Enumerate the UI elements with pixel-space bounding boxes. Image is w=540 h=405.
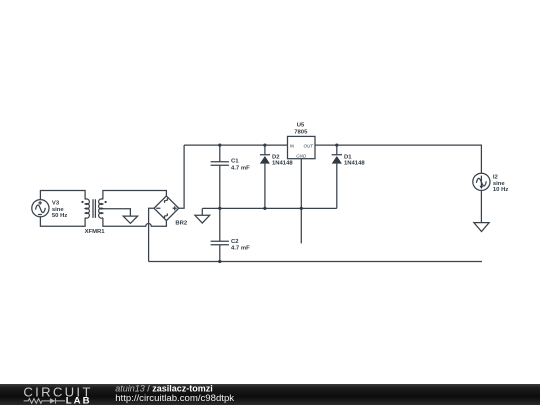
wire mid rail: [202, 207, 336, 209]
bridge rectifier BR2: [154, 196, 179, 221]
svg-text:1N4148: 1N4148: [272, 161, 293, 167]
wire bottom rail: [149, 261, 482, 263]
label D1 1N4148: [344, 155, 365, 167]
svg-text:4.7 mF: 4.7 mF: [231, 246, 250, 252]
svg-text:50 Hz: 50 Hz: [52, 213, 67, 219]
diode D2: [260, 145, 270, 208]
svg-text:sine: sine: [52, 207, 65, 213]
node mid D2: [263, 207, 266, 210]
op-amp U5 7805 regulator: [288, 136, 316, 158]
svg-text:OUT: OUT: [304, 143, 315, 148]
svg-text:10 Hz: 10 Hz: [493, 187, 508, 193]
wire secondary top: [103, 191, 166, 200]
node top C1: [218, 144, 221, 147]
svg-text:V3: V3: [52, 200, 60, 206]
capacitor C2: [211, 208, 229, 261]
wire V3 loop bottom: [40, 217, 85, 227]
svg-text:I2: I2: [493, 174, 499, 180]
node top D2: [263, 144, 266, 147]
voltage source V3: [32, 200, 49, 217]
svg-text:1N4148: 1N4148: [344, 161, 365, 167]
node mid GND pin: [300, 207, 303, 210]
wire GND pin: [300, 159, 302, 244]
node bottom C2: [218, 260, 221, 263]
wire top rail right: [315, 145, 481, 173]
wire secondary bottom with hop: [103, 218, 166, 227]
label C1 4.7 mF: [231, 158, 250, 171]
svg-text:sine: sine: [493, 181, 506, 187]
svg-text:IN: IN: [290, 143, 295, 148]
footer title: [115, 384, 234, 404]
svg-text:GND: GND: [296, 154, 307, 159]
svg-text:XFMR1: XFMR1: [85, 229, 106, 235]
svg-text:C2: C2: [231, 239, 239, 245]
svg-text:BR2: BR2: [175, 220, 188, 226]
svg-text:U5: U5: [297, 123, 305, 129]
transformer XFMR1: [81, 199, 106, 218]
node top D1: [335, 144, 338, 147]
wire center tap: [103, 209, 130, 216]
wire top rail left: [184, 144, 287, 146]
svg-text:C1: C1: [231, 158, 239, 164]
label D2 1N4148: [272, 155, 293, 167]
ground (mid rail): [195, 208, 210, 223]
label I2 sine 10 Hz: [493, 174, 508, 193]
svg-text:http://circuitlab.com/c98dtpk: http://circuitlab.com/c98dtpk: [115, 393, 234, 404]
wire V3 loop top: [40, 191, 85, 200]
label U5 7805: [294, 123, 308, 136]
svg-text:LAB: LAB: [66, 395, 92, 405]
ground (transformer tap): [123, 216, 137, 223]
svg-text:4.7 mF: 4.7 mF: [231, 165, 250, 171]
CircuitLab logo: [23, 384, 92, 405]
label C2 4.7 mF: [231, 239, 250, 251]
node mid C branch: [218, 207, 221, 210]
diode D1: [332, 145, 342, 208]
svg-text:7805: 7805: [294, 130, 308, 136]
label V3 sine 50 Hz: [52, 200, 67, 219]
capacitor C1: [211, 145, 229, 208]
current source I2: [473, 173, 490, 190]
ground (I2): [474, 223, 489, 232]
wire bridge plus to top rail: [179, 145, 184, 208]
wire I2 to ground: [480, 190, 482, 222]
wire bridge minus to bottom rail: [149, 208, 154, 261]
